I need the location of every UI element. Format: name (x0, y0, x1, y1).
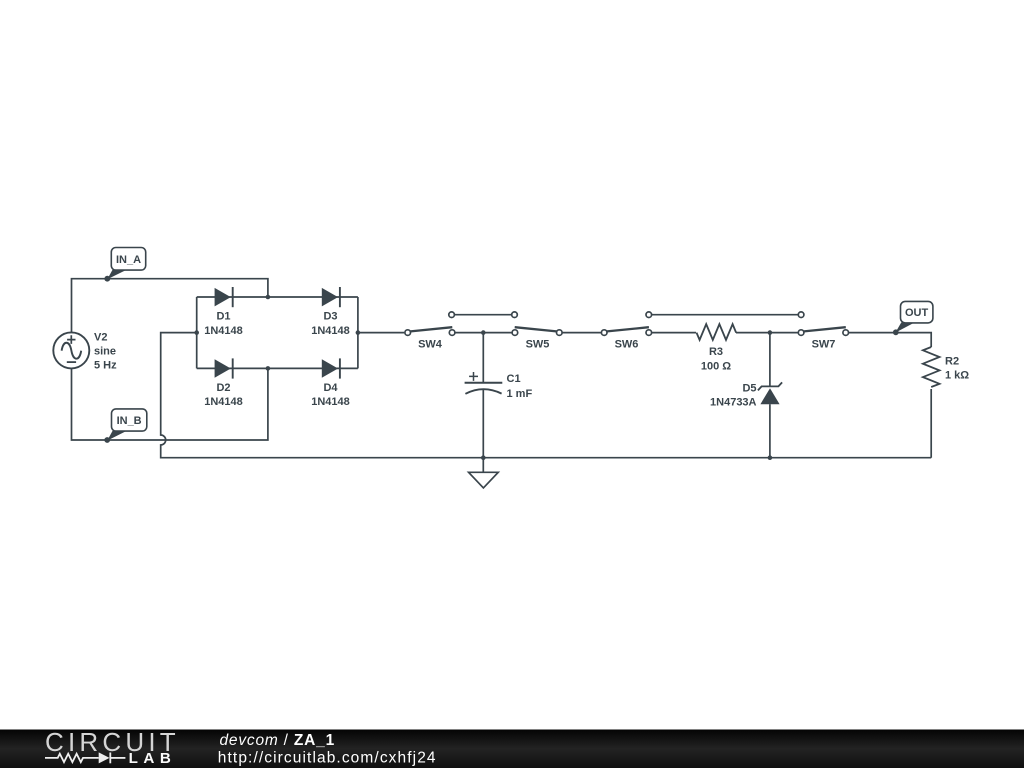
svg-text:1 kΩ: 1 kΩ (945, 369, 969, 381)
svg-text:http://circuitlab.com/cxhfj24: http://circuitlab.com/cxhfj24 (218, 750, 437, 767)
diode D3 (322, 287, 340, 307)
main rail segment bridge to SW4 (358, 332, 404, 334)
diode D4 (322, 358, 340, 378)
svg-text:1N4148: 1N4148 (204, 396, 243, 408)
node C1 top (481, 330, 486, 335)
svg-text:SW6: SW6 (615, 339, 639, 351)
svg-text:SW7: SW7 (812, 339, 836, 351)
main rail segment SW5 to SW6 (563, 332, 602, 334)
node C1 bottom (481, 455, 486, 460)
wire bridge left node to ground rail (with hop) (161, 333, 932, 458)
svg-text:1N4733A: 1N4733A (710, 396, 757, 408)
switch SW6 (601, 312, 651, 336)
node bridge right (356, 330, 361, 335)
svg-text:D3: D3 (323, 311, 337, 323)
resistor R3 (697, 324, 737, 340)
svg-text:1N4148: 1N4148 (311, 325, 350, 337)
svg-text:LAB: LAB (129, 750, 177, 767)
capacitor C1 (465, 372, 503, 394)
wire V2 top to IN_A rail to bridge top node (72, 279, 268, 333)
main rail segment SW4 to SW5 (through C1 node) (455, 332, 511, 334)
svg-text:OUT: OUT (905, 307, 929, 319)
svg-text:D5: D5 (742, 382, 756, 394)
svg-text:C1: C1 (507, 373, 521, 385)
switch SW7 (798, 312, 848, 336)
ground (469, 458, 499, 488)
bridge top row wire (197, 296, 358, 298)
node D5 bottom (768, 455, 773, 460)
svg-text:1N4148: 1N4148 (204, 325, 243, 337)
main rail segment R3 to SW7 (through D5 node) (736, 332, 798, 334)
net flag OUT (893, 301, 933, 335)
wire V2 bottom to IN_B rail to bridge bottom node (72, 368, 268, 440)
node D5 top (768, 330, 773, 335)
switch SW5 (512, 312, 562, 336)
net flag IN_B (104, 409, 147, 443)
svg-text:5 Hz: 5 Hz (94, 359, 117, 371)
svg-text:V2: V2 (94, 331, 107, 343)
resistor R2 (923, 347, 940, 387)
bridge right edge wire (357, 297, 359, 368)
svg-text:sine: sine (94, 345, 116, 357)
svg-text:devcom / ZA_1: devcom / ZA_1 (220, 732, 336, 749)
svg-text:IN_A: IN_A (116, 254, 141, 266)
svg-text:D1: D1 (216, 311, 230, 323)
svg-text:IN_B: IN_B (117, 415, 142, 427)
main rail segment SW6 to R3 (652, 332, 696, 334)
wire upper bypass bar SW6-SW7 (649, 314, 801, 316)
svg-text:SW4: SW4 (418, 339, 443, 351)
bridge bottom row wire (197, 367, 358, 369)
svg-text:D4: D4 (323, 382, 338, 394)
net flag IN_A (104, 248, 145, 282)
node bridge left (194, 330, 199, 335)
wire C1 branch lower to ground rail (482, 390, 484, 458)
wire D5 branch upper (769, 333, 771, 387)
svg-text:1 mF: 1 mF (507, 388, 533, 400)
main rail segment SW7 to R2 corner (849, 333, 931, 347)
svg-text:1N4148: 1N4148 (311, 396, 350, 408)
node IN_A junction (266, 295, 271, 300)
wire R2 bottom to ground rail (930, 389, 932, 458)
svg-text:SW5: SW5 (526, 339, 550, 351)
wire C1 branch upper (482, 333, 484, 383)
CircuitLab logo resistor-diode doodle (45, 753, 125, 764)
wire D5 branch lower (769, 404, 771, 458)
switch SW4 (405, 312, 455, 336)
wire upper bypass bar SW4-SW5 (452, 314, 515, 316)
svg-text:R3: R3 (709, 346, 723, 358)
voltage source V2 (53, 332, 89, 368)
bridge left edge wire (196, 297, 198, 368)
svg-text:100 Ω: 100 Ω (701, 360, 731, 372)
zener diode D5 (758, 382, 782, 404)
diode D2 (215, 358, 233, 378)
svg-text:D2: D2 (216, 382, 230, 394)
footer bar (0, 730, 1024, 768)
svg-text:R2: R2 (945, 355, 959, 367)
node IN_B junction (266, 366, 271, 371)
diode D1 (215, 287, 233, 307)
